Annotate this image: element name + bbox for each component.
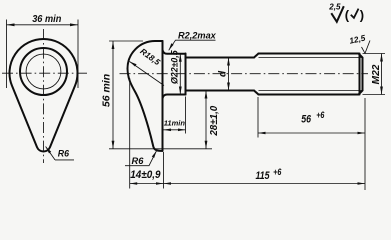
dimension d: dimension line and arrows xyxy=(228,58,230,91)
dimension 28: dimension line xyxy=(205,91,207,149)
svg-text:): ) xyxy=(360,7,364,22)
dimension 56 min: arrows xyxy=(112,41,115,149)
side view: main centerline xyxy=(120,73,369,75)
side view: shank bottom edge xyxy=(186,90,255,92)
side view: shank top edge xyxy=(186,57,255,59)
label R18,5: leader with arrow xyxy=(130,62,165,86)
dimension 14: arrows xyxy=(130,182,164,185)
dimension 56+6: dimension line xyxy=(258,132,365,134)
label R2,2max: leader shelf and arrow xyxy=(169,40,216,50)
dimension 11min: arrows xyxy=(164,129,186,132)
dimension 56 min: extension lines xyxy=(109,41,212,149)
roughness 12,5 symbol on thread xyxy=(362,41,371,54)
dimension 56 min: dimension line xyxy=(112,41,114,149)
svg-text:11min: 11min xyxy=(164,118,186,127)
front view: hole circle xyxy=(26,54,61,89)
svg-text:14±0,9: 14±0,9 xyxy=(130,170,160,182)
svg-text:R2,2max: R2,2max xyxy=(178,31,217,41)
front view: chamfer circle xyxy=(20,48,67,95)
side view: head face line xyxy=(162,41,164,151)
front view: horizontal centerline xyxy=(2,72,87,74)
dimension 36 min: dimension line xyxy=(7,24,79,26)
dimension 36 min: extension lines xyxy=(7,20,79,89)
dimension 14: extension lines xyxy=(130,78,164,189)
dimension M22: extension lines xyxy=(363,54,386,95)
dimension 11min: extension line xyxy=(185,97,187,134)
side view: head profile xyxy=(128,41,163,151)
side view: thread runout taper xyxy=(254,54,259,95)
side view: shoulder step line xyxy=(185,54,187,95)
front view: outer teardrop head outline xyxy=(9,39,77,151)
dimension M22: dimension line xyxy=(381,54,383,95)
svg-text:(: ( xyxy=(345,7,350,22)
svg-text:R6: R6 xyxy=(58,148,69,158)
side view: end chamfer xyxy=(359,54,363,95)
svg-text:M22: M22 xyxy=(371,64,382,84)
side view: thread major diameter bottom xyxy=(259,94,359,96)
side view: neck top edge with R2,2 fillet xyxy=(163,50,186,54)
dimension Phi22: dimension line and arrows xyxy=(179,54,181,95)
svg-text:56 min: 56 min xyxy=(101,74,112,107)
side view: thread minor diameter thin lines xyxy=(259,58,362,91)
dimension 28: arrows xyxy=(205,91,208,149)
svg-text:Ø22±0,5: Ø22±0,5 xyxy=(169,50,179,84)
dimension chain line 14 / 115 xyxy=(130,183,365,185)
general roughness 2,5 check symbol xyxy=(331,6,344,22)
label R6 (front view): leader xyxy=(46,147,74,160)
dimension 115: arrows xyxy=(164,182,366,185)
dimension 36 min: arrows xyxy=(7,23,79,26)
svg-text:28±1,0: 28±1,0 xyxy=(209,105,220,136)
svg-text:36 min: 36 min xyxy=(32,14,61,25)
dimension 56+6: arrows xyxy=(258,132,365,135)
svg-text:R6: R6 xyxy=(132,156,145,166)
dimension 56+6: extension lines xyxy=(258,97,365,190)
dimension 11min: dimension line xyxy=(164,129,186,131)
side view: thread major diameter top xyxy=(259,53,359,55)
front view: vertical centerline xyxy=(43,29,45,163)
side view: neck bottom edge xyxy=(163,95,186,99)
svg-text:d: d xyxy=(218,70,229,77)
svg-text:2,5: 2,5 xyxy=(328,2,341,11)
dimension M22: arrows xyxy=(380,54,383,95)
